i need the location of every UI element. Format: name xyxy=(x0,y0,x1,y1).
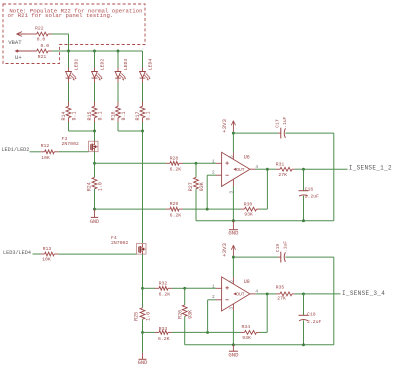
svg-text:R32: R32 xyxy=(159,281,168,287)
svg-text:R33: R33 xyxy=(159,326,168,332)
resistor R25 (shunt 1.0) xyxy=(142,288,144,308)
wire branch 3 lower xyxy=(117,122,119,131)
wire node C to pin1 U8 xyxy=(185,287,216,289)
svg-text:VBAT: VBAT xyxy=(8,39,22,46)
svg-text:R26: R26 xyxy=(177,310,183,319)
wire branch 1 upper xyxy=(68,51,70,68)
svg-text:GND: GND xyxy=(90,219,99,225)
wire LED bus xyxy=(69,50,143,52)
junction C18 gnd xyxy=(302,343,305,346)
junction drain F3 xyxy=(93,130,96,133)
svg-text:R21: R21 xyxy=(38,54,47,60)
junction bus-LED1 xyxy=(67,50,70,53)
resistor R24 (shunt 1.0) xyxy=(94,163,96,177)
wire gate F3 xyxy=(30,151,41,153)
svg-text:C16: C16 xyxy=(305,186,314,192)
svg-text:LED4: LED4 xyxy=(148,59,154,71)
resistor R28 xyxy=(166,162,170,164)
LED LED4 xyxy=(140,72,146,78)
wire R22 to bus xyxy=(52,33,69,35)
wire branch 2 lower xyxy=(94,122,96,131)
note box (dashed) xyxy=(3,4,145,64)
wire sense row 2 (pin2) xyxy=(95,208,167,210)
wire branch 3 upper xyxy=(117,51,119,68)
svg-text:1.0: 1.0 xyxy=(97,182,103,191)
wire branch 4 mid xyxy=(142,78,144,82)
ground GND (shunt 2) xyxy=(142,332,144,352)
capacitor C17 xyxy=(280,128,282,139)
svg-text:R13: R13 xyxy=(43,246,52,252)
wire C19 to gnd rail xyxy=(285,256,333,258)
wire sense row 1 (pin1) xyxy=(95,162,167,164)
wire branch 2 upper xyxy=(94,51,96,68)
svg-text:I_SENSE_3_4: I_SENSE_3_4 xyxy=(342,290,385,297)
LED LED2 xyxy=(92,72,98,78)
resistor R13 xyxy=(41,253,45,255)
wire +3V3 to C19 xyxy=(233,256,278,258)
svg-text:2: 2 xyxy=(212,170,215,176)
svg-text:R34: R34 xyxy=(242,324,251,330)
capacitor C19 xyxy=(280,252,282,263)
svg-text:LED1/LED2: LED1/LED2 xyxy=(1,147,29,153)
svg-text:9.1: 9.1 xyxy=(146,111,152,120)
svg-text:93K: 93K xyxy=(244,212,253,218)
LED LED1 xyxy=(66,72,72,78)
ground GND (shunt 1) xyxy=(94,209,96,217)
svg-text:LED2: LED2 xyxy=(100,59,106,71)
wire gate F4 xyxy=(33,253,41,255)
svg-text:2.2uF: 2.2uF xyxy=(305,194,320,200)
junction drain F4 xyxy=(141,130,144,133)
supply +3V3 (1) xyxy=(232,122,234,134)
wire F3 drain xyxy=(94,131,96,141)
svg-text:C18: C18 xyxy=(307,312,316,318)
junction +3V3 (1) xyxy=(232,132,235,135)
svg-text:2N7002: 2N7002 xyxy=(111,240,128,246)
ground GND (op-amp 2) xyxy=(232,345,234,351)
svg-text:U8: U8 xyxy=(244,279,250,285)
resistor R31 (27K) xyxy=(267,168,276,170)
svg-text:R17: R17 xyxy=(135,111,141,120)
junction node D (pin2 net U8) xyxy=(206,331,209,334)
wire R21 to bus xyxy=(52,50,69,52)
wire branch 4 upper xyxy=(142,51,144,68)
svg-text:9.1: 9.1 xyxy=(98,111,104,120)
junction +3V3 (2) xyxy=(232,256,235,259)
wire F4 source xyxy=(142,254,144,288)
svg-text:I_SENSE_1_2: I_SENSE_1_2 xyxy=(349,165,392,172)
svg-text:27K: 27K xyxy=(278,172,287,178)
op-amp U8 xyxy=(222,277,250,311)
svg-text:C19: C19 xyxy=(275,244,281,253)
svg-text:C17: C17 xyxy=(275,119,281,128)
wire F4 drain (long) xyxy=(142,131,144,243)
svg-text:R27: R27 xyxy=(188,182,194,191)
resistor R26 (93K to gnd) xyxy=(184,288,186,305)
wire op-amp U8 V+ pin xyxy=(232,257,234,277)
wire gate F3 right xyxy=(58,151,88,153)
resistor R29 xyxy=(166,208,170,210)
svg-text:10K: 10K xyxy=(42,257,51,263)
svg-text:9.1: 9.1 xyxy=(121,111,127,120)
wire node A to pin1 xyxy=(196,162,216,164)
svg-text:R29: R29 xyxy=(170,201,179,207)
wire branch3-branch4 join xyxy=(118,130,143,132)
svg-text:OUT: OUT xyxy=(236,292,245,298)
junction bus-LED2 xyxy=(93,50,96,53)
wire feedback riser 1 xyxy=(266,169,268,209)
junction C16 gnd xyxy=(302,219,305,222)
wire +3V3 to C17 xyxy=(233,132,278,134)
wire R28 to node A xyxy=(183,162,196,164)
supply pin U+ xyxy=(16,50,19,53)
svg-text:R12: R12 xyxy=(41,143,50,149)
wire to I_SENSE_3_4 label xyxy=(304,293,341,295)
svg-text:93K: 93K xyxy=(242,335,251,341)
svg-text:OUT: OUT xyxy=(236,167,245,173)
svg-text:R14: R14 xyxy=(61,111,67,120)
svg-text:or R21 for solar panel testing: or R21 for solar panel testing. xyxy=(8,12,114,19)
svg-text:R28: R28 xyxy=(170,155,179,161)
svg-text:.1uF: .1uF xyxy=(282,241,288,252)
svg-text:+3V3: +3V3 xyxy=(221,118,228,132)
resistor R30 (feedback 93K) xyxy=(207,208,240,210)
svg-text:+3V3: +3V3 xyxy=(221,242,228,256)
svg-text:LED3/LED4: LED3/LED4 xyxy=(3,250,31,256)
svg-text:LED3: LED3 xyxy=(123,59,129,71)
svg-text:2.2uF: 2.2uF xyxy=(307,319,322,325)
wire gnd rail 1 xyxy=(196,220,334,222)
resistor R14 xyxy=(68,102,70,106)
capacitor C16 (2.2uF) xyxy=(303,169,305,191)
svg-text:.1uF: .1uF xyxy=(282,116,288,127)
wire gnd rail 2 xyxy=(185,344,334,346)
svg-text:93K: 93K xyxy=(199,182,205,191)
wire branch 3 mid xyxy=(117,78,119,82)
wire F3 source xyxy=(94,152,96,164)
ground GND (op-amp 1) xyxy=(232,221,234,230)
svg-text:LED1: LED1 xyxy=(74,59,80,71)
svg-text:GND: GND xyxy=(228,351,239,358)
supply arrow VBAT xyxy=(17,32,26,37)
capacitor C18 (2.2uF) xyxy=(303,294,305,315)
svg-text:93K: 93K xyxy=(188,310,194,319)
junction gnd rail 2 xyxy=(232,343,235,346)
svg-text:R35: R35 xyxy=(276,284,285,290)
junction node C xyxy=(183,287,186,290)
svg-text:6.2K: 6.2K xyxy=(159,292,171,298)
svg-text:0.0: 0.0 xyxy=(37,36,46,42)
junction node B (pin2 net) xyxy=(206,208,209,211)
junction node A xyxy=(195,162,198,165)
transistor F3 xyxy=(89,141,99,152)
junction gnd rail 1 xyxy=(232,219,235,222)
wire sense row 4 (pin2 U8) xyxy=(143,331,156,333)
supply +3V3 (2) xyxy=(232,246,234,257)
wire branch1-branch2 join xyxy=(69,130,95,132)
resistor R32 xyxy=(155,287,159,289)
wire gate F4 right xyxy=(58,253,136,255)
junction output 2 xyxy=(266,292,269,295)
svg-text:R30: R30 xyxy=(244,201,253,207)
junction R25 bottom xyxy=(141,331,144,334)
resistor R27 (93K to gnd) xyxy=(195,163,197,177)
junction bus-LED3 xyxy=(117,50,120,53)
wire U6 output xyxy=(250,168,256,170)
resistor R21 xyxy=(19,50,37,52)
wire R32 to node C xyxy=(172,287,185,289)
wire branch 4 lower xyxy=(142,122,144,131)
op-amp U6 xyxy=(222,152,250,186)
svg-text:9.1: 9.1 xyxy=(72,111,78,120)
svg-text:R16: R16 xyxy=(111,111,117,120)
svg-text:10K: 10K xyxy=(41,155,50,161)
wire node D riser to pin 2 U8 xyxy=(207,300,209,333)
junction I_SENSE_3_4 xyxy=(302,292,305,295)
resistor R12 xyxy=(41,151,45,153)
svg-text:27K: 27K xyxy=(277,296,286,302)
LED LED3 xyxy=(115,72,121,78)
resistor R16 xyxy=(117,102,119,106)
svg-text:6.2K: 6.2K xyxy=(170,167,182,173)
svg-text:1.0: 1.0 xyxy=(145,312,151,321)
wire op-amp U6 V+ pin xyxy=(232,133,234,152)
svg-text:R25: R25 xyxy=(133,312,139,321)
wire branch 1 lower xyxy=(68,122,70,131)
junction I_SENSE_1_2 xyxy=(302,168,305,171)
wire node B riser to pin 2 xyxy=(206,175,208,209)
resistor R35 (27K) xyxy=(267,293,276,295)
wire R29 to node B xyxy=(183,208,207,210)
wire U8 output xyxy=(250,293,256,295)
wire branch 1 mid xyxy=(68,78,70,82)
wire feedback riser 2 xyxy=(266,294,268,333)
svg-text:2N7002: 2N7002 xyxy=(62,141,79,147)
wire to I_SENSE_1_2 label xyxy=(304,168,348,170)
resistor R34 (feedback 93K) xyxy=(208,331,241,333)
svg-text:R15: R15 xyxy=(87,111,93,120)
svg-text:2: 2 xyxy=(212,294,215,300)
svg-text:1: 1 xyxy=(212,284,215,290)
wire sense row 3 (pin1 U8) xyxy=(143,287,156,289)
junction R24 bottom xyxy=(93,208,96,211)
wire branch 2 mid xyxy=(94,78,96,82)
svg-text:GND: GND xyxy=(138,360,148,366)
wire op-amp U6 V- pin xyxy=(232,179,234,186)
svg-text:R22: R22 xyxy=(35,26,44,32)
svg-text:U+: U+ xyxy=(15,54,22,61)
resistor R22 xyxy=(25,33,37,35)
svg-text:GND: GND xyxy=(228,229,239,236)
svg-text:0.0: 0.0 xyxy=(40,43,49,49)
resistor R17 xyxy=(142,102,144,106)
resistor R33 xyxy=(155,331,159,333)
svg-text:6.2K: 6.2K xyxy=(170,212,182,218)
resistor R15 xyxy=(94,102,96,106)
svg-text:1: 1 xyxy=(212,159,215,165)
transistor F4 xyxy=(137,244,147,255)
svg-text:R24: R24 xyxy=(87,182,93,191)
wire op-amp U8 V- pin xyxy=(232,304,234,311)
junction R24 top xyxy=(93,162,96,165)
junction output 1 xyxy=(266,168,269,171)
wire R33 to node D xyxy=(172,331,208,333)
junction R25 top xyxy=(141,287,144,290)
svg-text:U6: U6 xyxy=(244,155,250,161)
wire C17 to gnd rail xyxy=(285,132,333,134)
svg-text:6.2K: 6.2K xyxy=(158,336,170,342)
svg-text:R31: R31 xyxy=(276,161,285,167)
